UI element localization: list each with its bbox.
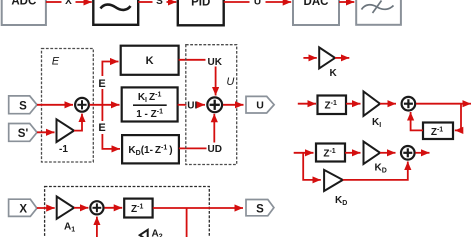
block PID (178, 0, 224, 25)
summing junction 1 (75, 98, 89, 112)
wire KI to UI (178, 104, 187, 106)
wire Z-1 to gain KI (346, 103, 361, 105)
node S input tag (9, 96, 37, 114)
wire PID to DAC (224, 1, 292, 3)
svg-text:UD: UD (208, 144, 222, 155)
svg-text:S: S (19, 100, 27, 112)
block Z-1 KD row (316, 144, 345, 162)
wire branch down to gain KD lower (303, 153, 321, 180)
gain KD lower (324, 170, 347, 207)
svg-text:PID: PID (191, 0, 210, 9)
svg-text:S: S (156, 0, 163, 7)
svg-text:S': S' (18, 128, 29, 140)
svg-text:U: U (254, 0, 261, 7)
svg-text:K: K (146, 55, 154, 67)
wire branch down to A2 (186, 208, 188, 238)
inverter -1 (57, 119, 75, 155)
svg-text:X: X (65, 0, 72, 7)
wire A1 to junction 3 (74, 207, 88, 209)
block filter (93, 0, 138, 25)
wire Z-1 feedback up into junction 4 (411, 112, 423, 130)
svg-text:U: U (226, 76, 234, 88)
wire ADC to filter (46, 1, 92, 3)
summing junction 3 (90, 201, 103, 214)
wire into gain K right (303, 57, 316, 59)
wire branch E down to KD block (101, 105, 103, 121)
wire filter to PID (138, 1, 176, 3)
svg-text:UI: UI (187, 100, 197, 111)
block KI integrator (122, 87, 178, 121)
svg-text:S: S (256, 203, 264, 215)
gain KI (364, 92, 382, 130)
node U output tag (246, 96, 274, 113)
block analog output filter (356, 0, 401, 25)
wire gain KI to junction 4 (380, 103, 396, 105)
wire Z-1 to gain KD (345, 152, 361, 154)
node S' input tag (9, 124, 37, 142)
svg-text:E: E (98, 122, 105, 134)
svg-text:-1: -1 (59, 144, 68, 155)
svg-text:UK: UK (208, 57, 223, 68)
wire out arrow right edge (461, 103, 471, 105)
wire junction 1 to KI block (90, 104, 120, 106)
wire UD up to junction 2 (213, 114, 215, 143)
wire into Z-1 KD row (294, 152, 314, 154)
dashed box bottom filter (45, 187, 210, 240)
svg-text:U: U (256, 100, 264, 112)
wire K to UK (179, 59, 206, 61)
svg-text:X: X (19, 203, 27, 215)
wire S to summing junction (37, 104, 73, 106)
summing junction 5 (401, 146, 415, 160)
node S output tag (246, 200, 274, 216)
wire Z-1 to S tag (153, 207, 243, 209)
summing junction 2 (207, 97, 222, 112)
wire junction 3 to Z-1 (104, 207, 122, 209)
amplifier A2 (140, 229, 163, 240)
wire junction 2 to U tag (223, 104, 244, 106)
wire KD to UD (179, 147, 207, 149)
wire UK down to junction 2 (215, 67, 217, 96)
block KD derivative (122, 135, 179, 163)
block Z-1 bottom (124, 199, 152, 218)
block K (121, 46, 179, 75)
wire feedback up into junction 3 (96, 217, 98, 238)
node X input tag (9, 199, 37, 216)
wire DAC to output filter (339, 1, 354, 3)
dashed box E (42, 49, 94, 163)
svg-text:E: E (98, 78, 105, 90)
amplifier A1 (57, 197, 76, 234)
wire gain K out (335, 57, 349, 59)
gain K right (319, 47, 337, 79)
gain KD upper (364, 142, 387, 175)
summing junction 4 (402, 97, 416, 111)
wire junction 5 out (415, 152, 429, 154)
wire UI arrow into junction 2 (198, 104, 205, 106)
svg-text:DAC: DAC (304, 0, 329, 8)
wire branch E up to K block (101, 89, 103, 105)
block Z-1 KI row (318, 96, 347, 115)
dashed box U (186, 45, 237, 165)
wire into Z-1 KI row (298, 103, 316, 105)
block DAC (293, 0, 339, 25)
wire X to A1 (37, 207, 55, 209)
svg-text:ADC: ADC (11, 0, 36, 7)
wire gain KD lower up into junction 5 (343, 162, 408, 180)
wire junction 4 out right (416, 103, 461, 105)
wire gain KD to junction 5 (380, 152, 396, 154)
block Z-1 feedback (423, 123, 453, 140)
wire inverter to summing junction 1 (74, 114, 82, 131)
wire S' to inverter (37, 131, 55, 133)
wire feedback down into Z-1 (455, 104, 461, 131)
svg-text:K: K (330, 68, 338, 79)
block ADC (2, 0, 46, 25)
svg-text:E: E (52, 55, 60, 67)
